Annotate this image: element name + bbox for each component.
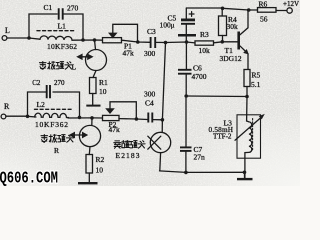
svg-text:L2: L2 — [37, 100, 46, 109]
svg-text:56: 56 — [260, 15, 268, 24]
svg-text:27n: 27n — [194, 153, 206, 162]
svg-text:300: 300 — [144, 90, 156, 99]
svg-text:270: 270 — [67, 4, 79, 13]
svg-text:C1: C1 — [44, 3, 53, 12]
svg-text:L1: L1 — [58, 22, 67, 31]
svg-text:C3: C3 — [147, 27, 156, 36]
svg-text:4700: 4700 — [192, 72, 207, 81]
svg-text:C4: C4 — [145, 99, 154, 108]
svg-text:R: R — [54, 146, 59, 155]
svg-text:R6: R6 — [259, 0, 268, 9]
svg-text:300: 300 — [144, 49, 156, 58]
svg-text:+12V: +12V — [283, 0, 299, 8]
svg-text:270: 270 — [54, 79, 65, 87]
svg-text:10KF362: 10KF362 — [47, 42, 77, 51]
svg-text:Q606.COM: Q606.COM — [0, 169, 58, 186]
svg-text:L: L — [72, 63, 77, 72]
svg-text:10k: 10k — [199, 46, 211, 55]
svg-text:30k: 30k — [227, 22, 239, 31]
svg-text:3DG12: 3DG12 — [220, 54, 242, 63]
svg-text:L: L — [5, 26, 10, 35]
svg-text:R5: R5 — [252, 71, 261, 80]
svg-text:5.1: 5.1 — [251, 80, 261, 89]
svg-text:47k: 47k — [109, 125, 121, 134]
svg-text:R: R — [4, 102, 10, 111]
svg-text:R1: R1 — [99, 78, 108, 87]
svg-text:E2183: E2183 — [116, 151, 140, 160]
svg-text:C2: C2 — [32, 79, 41, 87]
svg-text:10KF362: 10KF362 — [35, 120, 68, 129]
svg-text:47k: 47k — [123, 49, 135, 58]
svg-text:R2: R2 — [96, 155, 105, 164]
svg-text:10: 10 — [99, 87, 107, 96]
svg-text:TTF-2: TTF-2 — [213, 133, 232, 141]
svg-text:R3: R3 — [200, 30, 209, 39]
svg-text:10: 10 — [96, 166, 104, 175]
svg-text:100μ: 100μ — [160, 21, 175, 30]
